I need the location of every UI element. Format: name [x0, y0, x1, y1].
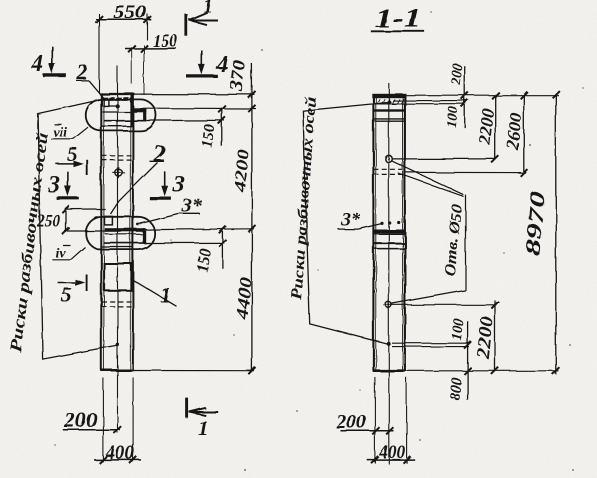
svg-text:1: 1	[203, 0, 213, 17]
svg-text:400: 400	[105, 442, 135, 464]
svg-text:1-1: 1-1	[375, 3, 422, 33]
svg-text:200: 200	[63, 408, 98, 432]
svg-text:2600: 2600	[503, 111, 526, 151]
svg-text:2200: 2200	[475, 107, 498, 146]
svg-text:200: 200	[335, 411, 366, 433]
svg-text:800: 800	[447, 376, 465, 401]
svg-text:100: 100	[444, 106, 461, 128]
svg-text:4: 4	[31, 52, 44, 78]
svg-text:400: 400	[378, 442, 405, 463]
svg-text:3*: 3*	[341, 210, 362, 231]
svg-text:200: 200	[449, 63, 466, 86]
svg-text:4: 4	[215, 52, 228, 78]
svg-text:2: 2	[153, 142, 166, 168]
svg-text:5: 5	[62, 283, 73, 307]
svg-text:1: 1	[161, 283, 172, 308]
svg-text:3: 3	[172, 172, 185, 198]
svg-text:150: 150	[193, 247, 214, 274]
svg-text:3: 3	[48, 173, 61, 199]
svg-text:150: 150	[199, 123, 218, 149]
svg-text:5: 5	[67, 144, 77, 166]
svg-text:150: 150	[153, 30, 178, 50]
svg-text:370: 370	[226, 59, 250, 94]
svg-text:1: 1	[198, 416, 209, 440]
svg-text:550: 550	[113, 2, 147, 23]
svg-text:100: 100	[449, 318, 467, 341]
